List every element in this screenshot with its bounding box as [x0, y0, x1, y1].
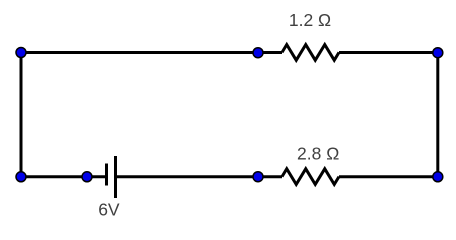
node: top middle (left of R1): [253, 48, 263, 58]
node: top-left corner: [16, 48, 26, 58]
node: left of battery: [82, 172, 92, 182]
svg-text:2.8 Ω: 2.8 Ω: [297, 143, 339, 163]
svg-text:1.2 Ω: 1.2 Ω: [289, 10, 331, 30]
node: top-right corner: [433, 48, 443, 58]
wire: right vertical side: [436, 53, 439, 177]
resistor R1 1.2 ohm (zigzag body): [282, 45, 339, 61]
node: bottom-right corner: [433, 172, 443, 182]
svg-text:6V: 6V: [98, 199, 120, 219]
node: bottom-left corner: [16, 172, 26, 182]
battery V1 positive (long) plate: [114, 156, 117, 198]
wire: bottom-left corner to battery negative plate: [21, 175, 107, 178]
node: bottom middle (left of R2): [253, 172, 263, 182]
wire: R2 right lead to bottom-right corner: [339, 175, 438, 178]
battery V1 negative (short) plate: [105, 164, 108, 186]
wire: R1 right lead to top-right corner: [339, 51, 438, 54]
wire: left vertical side: [20, 53, 23, 177]
wire: battery positive plate to R2 left lead: [116, 175, 283, 178]
resistor R2 2.8 ohm (zigzag body): [282, 169, 339, 185]
wire: top-left corner to R1 left lead: [21, 51, 282, 54]
